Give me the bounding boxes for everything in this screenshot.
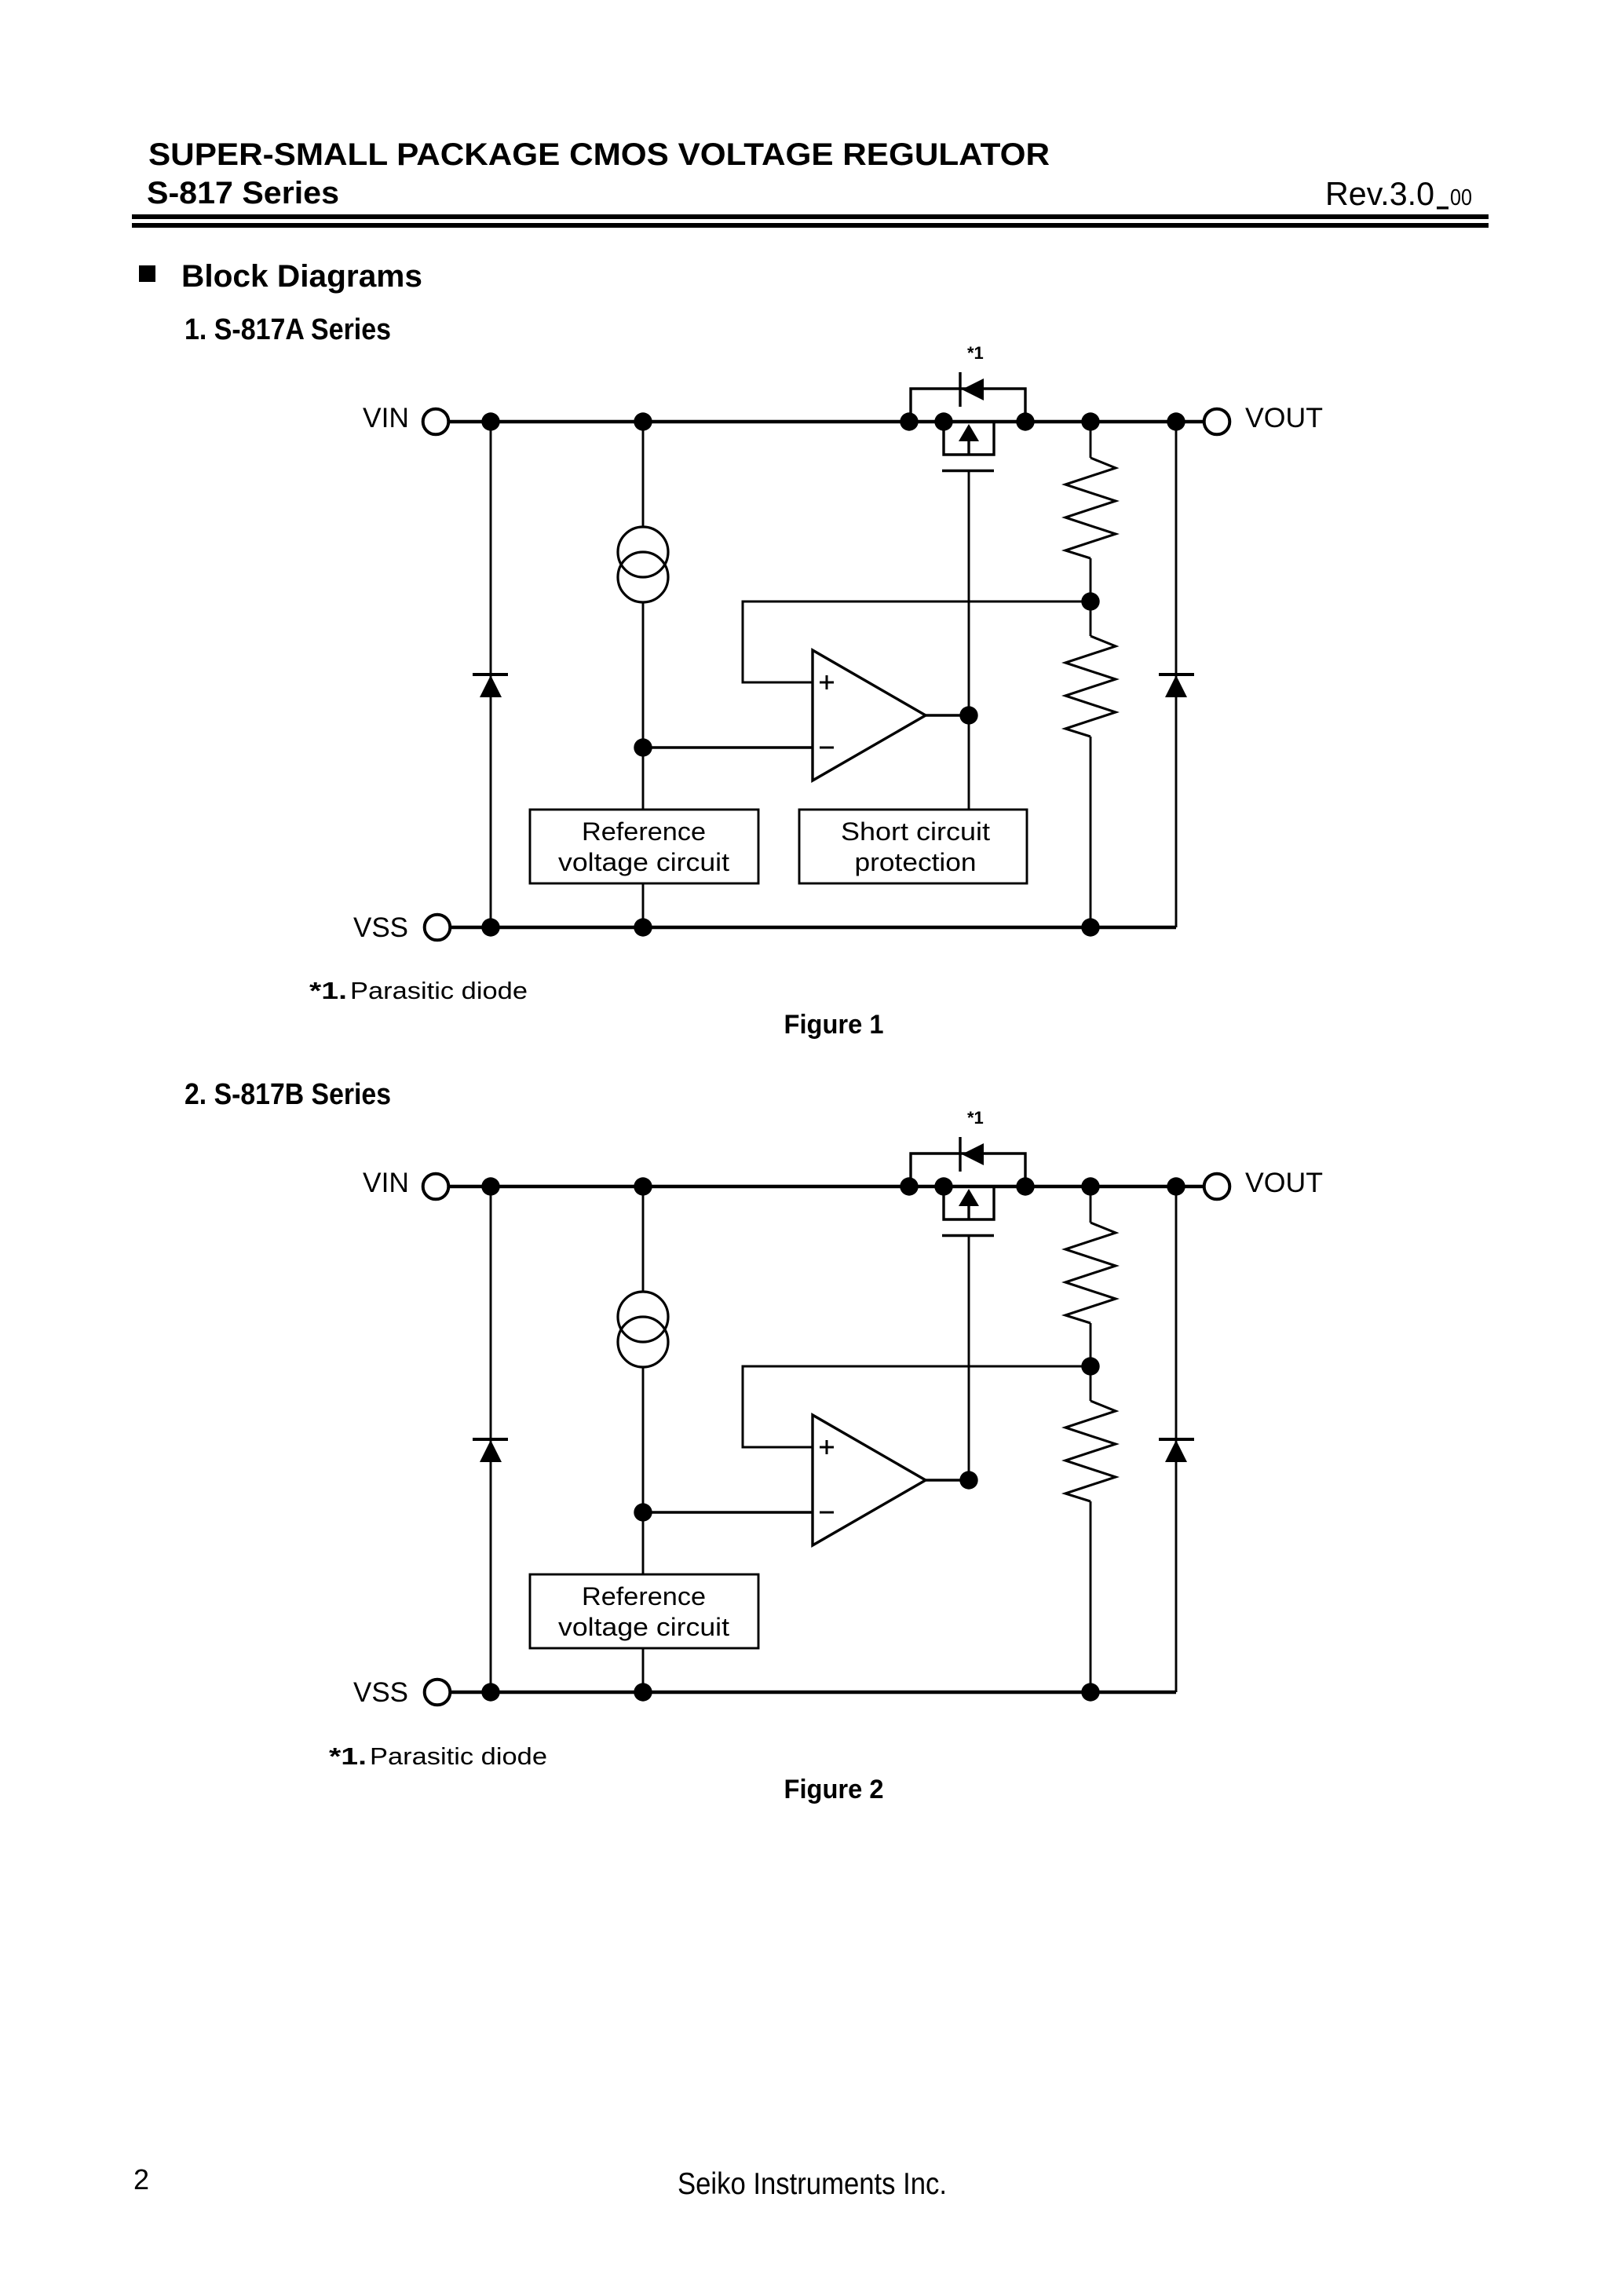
svg-text:Figure 1: Figure 1 (784, 1010, 884, 1040)
svg-text:*1: *1 (967, 343, 984, 363)
svg-text:*1.Parasitic diode: *1.Parasitic diode (309, 977, 528, 1004)
svg-text:S-817 Series: S-817 Series (147, 176, 339, 210)
svg-text:Figure 2: Figure 2 (784, 1775, 884, 1804)
svg-text:VIN: VIN (363, 403, 409, 433)
svg-text:VOUT: VOUT (1245, 403, 1323, 433)
svg-text:*1: *1 (967, 1108, 984, 1128)
svg-text:SUPER-SMALL PACKAGE CMOS VOLTA: SUPER-SMALL PACKAGE CMOS VOLTAGE REGULAT… (148, 137, 1050, 172)
svg-text:Reference: Reference (582, 1582, 706, 1610)
svg-text:2. S-817B Series: 2. S-817B Series (184, 1078, 391, 1111)
svg-text:Block Diagrams: Block Diagrams (181, 259, 422, 294)
svg-text:Rev.3.0: Rev.3.0 (1325, 175, 1434, 212)
svg-text:VOUT: VOUT (1245, 1168, 1323, 1198)
svg-text:Short circuit: Short circuit (841, 817, 990, 846)
svg-text:VSS: VSS (353, 912, 408, 943)
svg-text:VIN: VIN (363, 1168, 409, 1198)
svg-text:protection: protection (855, 848, 977, 876)
svg-text:1. S-817A Series: 1. S-817A Series (184, 313, 391, 346)
svg-text:voltage circuit: voltage circuit (558, 1613, 729, 1641)
svg-text:Seiko Instruments Inc.: Seiko Instruments Inc. (678, 2167, 947, 2201)
svg-text:00: 00 (1450, 185, 1472, 210)
svg-text:*1.Parasitic diode: *1.Parasitic diode (329, 1742, 547, 1770)
svg-text:VSS: VSS (353, 1677, 408, 1708)
svg-text:voltage circuit: voltage circuit (558, 848, 729, 876)
svg-text:2: 2 (133, 2163, 149, 2195)
svg-text:Reference: Reference (582, 817, 706, 846)
